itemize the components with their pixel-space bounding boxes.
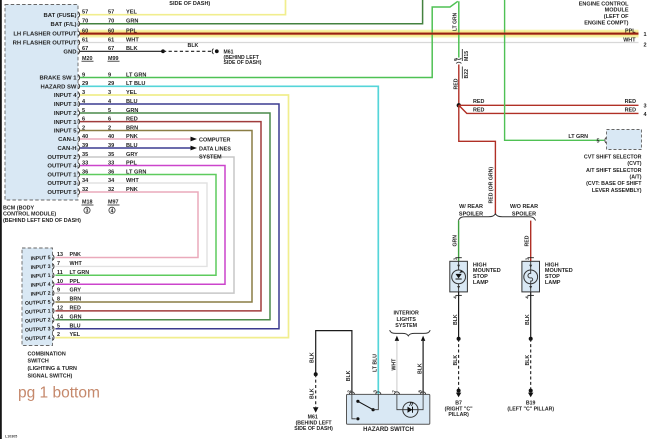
BCM pin symbol OUTPUT 4	[78, 163, 79, 168]
hazard switch internal contacts	[352, 394, 356, 418]
svg-text:A/T SHIFT SELECTOR: A/T SHIFT SELECTOR	[586, 168, 642, 174]
circled connector number 3	[84, 207, 90, 213]
svg-text:SIDE OF DASH): SIDE OF DASH)	[294, 426, 333, 432]
svg-text:LAMP: LAMP	[473, 280, 489, 286]
combination switch pin symbol INPUT 5	[53, 255, 54, 260]
svg-text:(LIGHTING & TURN: (LIGHTING & TURN	[28, 366, 78, 372]
combination switch pin symbol OUTPUT 4	[53, 335, 54, 340]
wire RED below connector	[458, 65, 460, 106]
connector symbol at M61	[212, 49, 213, 54]
hazard switch pin 2	[349, 392, 354, 395]
hazard switch box	[347, 394, 430, 424]
svg-text:W/ REAR: W/ REAR	[459, 204, 483, 210]
svg-text:OUTPUT 5: OUTPUT 5	[47, 190, 77, 196]
svg-text:BLK: BLK	[417, 363, 423, 374]
svg-text:BLK: BLK	[188, 43, 199, 49]
BCM (body control module) connector block	[5, 5, 78, 201]
wire RH FLASHER OUTPUT WHT	[80, 42, 639, 44]
svg-text:BLK: BLK	[310, 352, 316, 363]
svg-text:4: 4	[111, 208, 114, 214]
svg-text:SYSTEM: SYSTEM	[395, 323, 417, 329]
dashed BLK wire to ground	[458, 339, 460, 391]
splice dot	[457, 337, 461, 341]
svg-text:INPUT 3: INPUT 3	[31, 264, 51, 271]
brace under interior lights system	[390, 330, 431, 336]
svg-text:OUTPUT 2: OUTPUT 2	[47, 155, 77, 161]
svg-text:WHT: WHT	[623, 38, 636, 44]
svg-text:BLK: BLK	[525, 355, 531, 366]
svg-text:CAN-L: CAN-L	[58, 137, 77, 143]
svg-text:BLK: BLK	[525, 314, 531, 325]
svg-text:(A/T): (A/T)	[629, 175, 641, 181]
left page border	[0, 0, 2, 439]
splice dot	[529, 337, 533, 341]
svg-text:RED: RED	[525, 235, 531, 246]
BCM pin symbol INPUT 2	[78, 110, 79, 115]
svg-text:LEVER ASSEMBLY): LEVER ASSEMBLY)	[592, 188, 642, 194]
svg-text:3: 3	[86, 208, 89, 214]
svg-text:INPUT 1: INPUT 1	[54, 120, 77, 126]
svg-text:(BEHIND LEFT END OF DASH): (BEHIND LEFT END OF DASH)	[3, 218, 81, 224]
arrow to M61	[313, 407, 319, 412]
lamp internal wire bottom	[530, 284, 532, 292]
combination switch pin symbol OUTPUT 2	[53, 317, 54, 322]
svg-text:ENGINE CONTROL: ENGINE CONTROL	[579, 1, 629, 7]
stop lamp pin 4 tick	[528, 294, 534, 296]
BCM pin symbol OUTPUT 3	[78, 180, 79, 185]
svg-text:CVT SHIFT SELECTOR: CVT SHIFT SELECTOR	[584, 154, 642, 160]
svg-text:1: 1	[644, 32, 647, 38]
svg-text:BRAKE SW 1: BRAKE SW 1	[40, 76, 78, 82]
svg-text:INPUT 4: INPUT 4	[31, 282, 51, 289]
combination switch pin label OUTPUT 2	[25, 317, 51, 324]
svg-text:WHT: WHT	[391, 358, 397, 371]
svg-text:LT GRN: LT GRN	[452, 12, 458, 31]
wire BLK from lamp	[458, 292, 460, 339]
hazard switch indicator circuit	[397, 394, 423, 409]
svg-text:RED: RED	[453, 78, 459, 89]
svg-text:CONTROL MODULE): CONTROL MODULE)	[3, 212, 56, 218]
wire GRN to left stop lamp	[458, 221, 460, 262]
CVT shift selector box	[607, 130, 642, 150]
svg-text:SPOILER: SPOILER	[459, 211, 483, 217]
wire BRN BCM to combination switch	[55, 131, 252, 303]
stop lamp pin 4 tick	[455, 294, 461, 296]
svg-text:RED: RED	[473, 107, 484, 113]
svg-text:RH FLASHER OUTPUT: RH FLASHER OUTPUT	[13, 41, 77, 47]
svg-text:RED: RED	[473, 99, 484, 105]
svg-text:BLK: BLK	[453, 314, 459, 325]
combination switch pin label INPUT 2	[31, 291, 51, 298]
BCM pin symbol CAN-H	[78, 145, 79, 150]
svg-text:SIDE OF DASH): SIDE OF DASH)	[169, 1, 210, 7]
combination switch pin label INPUT 1	[31, 273, 51, 280]
BCM pin symbol BAT (FUSE)	[78, 12, 79, 17]
ground point B19	[529, 389, 533, 393]
BCM pin symbol RH FLASHER OUTPUT	[78, 40, 79, 45]
hazard indicator lamp circle	[403, 402, 418, 417]
arrow to interior lights (BLK)	[421, 336, 425, 341]
wire YEL BCM to combination switch	[55, 95, 288, 338]
svg-text:LH FLASHER OUTPUT: LH FLASHER OUTPUT	[13, 32, 77, 38]
wire RED to right stop lamp	[530, 221, 532, 262]
wire BLK hazard to interior lights	[422, 341, 424, 395]
arrow CAN-H	[191, 146, 198, 151]
splice dot	[314, 372, 318, 376]
wire RED to pin 4	[459, 105, 639, 113]
wire RED to pin 3	[459, 104, 639, 106]
svg-text:LT BLU: LT BLU	[372, 354, 378, 372]
dashed GND wire to M61	[163, 50, 213, 52]
BCM pin symbol OUTPUT 1	[78, 172, 79, 177]
wire BLK from lamp	[530, 292, 532, 339]
svg-text:OUTPUT 3: OUTPUT 3	[47, 181, 77, 187]
BCM pin symbol INPUT 1	[78, 119, 79, 124]
wire LT GRN BCM to combination switch	[55, 175, 216, 276]
svg-text:1: 1	[452, 257, 457, 260]
svg-text:BAT (F/L): BAT (F/L)	[50, 22, 76, 28]
svg-text:OUTPUT 1: OUTPUT 1	[47, 173, 77, 179]
svg-text:pg 1 bottom: pg 1 bottom	[18, 385, 100, 402]
alternative brace w/ and w/o rear spoiler	[458, 214, 535, 221]
combination switch pin label INPUT 5	[31, 255, 51, 262]
svg-text:BCM (BODY: BCM (BODY	[3, 206, 35, 212]
hazard indicator LED symbol	[408, 407, 413, 413]
svg-text:MODULE: MODULE	[605, 8, 629, 14]
wire WHT hazard to interior lights	[396, 341, 398, 395]
BCM pin symbol INPUT 3	[78, 101, 79, 106]
svg-text:W/O REAR: W/O REAR	[510, 204, 538, 210]
wire PPL BCM to combination switch	[55, 166, 225, 285]
svg-text:INPUT 1: INPUT 1	[31, 273, 51, 280]
svg-text:M15: M15	[464, 51, 470, 61]
wire CAN-H BLU to computer data lines	[80, 147, 191, 149]
svg-text:LIGHTS: LIGHTS	[396, 317, 416, 323]
stop lamp pin 1 tick	[528, 257, 534, 259]
svg-text:LT GRN: LT GRN	[568, 134, 588, 140]
svg-text:DATA LINES: DATA LINES	[199, 146, 231, 152]
BCM pin symbol BAT (F/L)	[78, 21, 79, 26]
combination switch pin label INPUT 4	[31, 282, 51, 289]
svg-text:PILLAR): PILLAR)	[448, 412, 469, 418]
high mounted stop lamp box	[450, 261, 468, 292]
wire RED (OR GRN) down to spoiler alternatives	[459, 105, 496, 214]
svg-text:HAZARD SW: HAZARD SW	[41, 85, 77, 91]
wire PNK BCM to combination switch	[55, 192, 198, 258]
svg-text:SIGNAL SWITCH): SIGNAL SWITCH)	[28, 373, 73, 379]
bulb filament symbol	[528, 270, 533, 284]
lamp circle	[524, 270, 538, 284]
svg-text:COMPUTER: COMPUTER	[199, 138, 231, 144]
wire GRY BCM to combination switch	[55, 157, 234, 293]
svg-text:(CVT): (CVT)	[627, 161, 641, 167]
svg-text:OUTPUT 4: OUTPUT 4	[47, 164, 77, 170]
lamp internal wire top	[530, 261, 532, 270]
svg-text:ENGINE COMPT): ENGINE COMPT)	[584, 20, 628, 26]
lamp circle	[452, 270, 466, 284]
svg-text:GRN: GRN	[453, 235, 459, 247]
svg-text:INPUT 2: INPUT 2	[54, 111, 77, 117]
wire BAT(F/L) GRN	[80, 0, 423, 24]
stop lamp pin 1 tick	[455, 257, 461, 259]
combination switch pin symbol INPUT 4	[53, 282, 54, 287]
svg-text:BLK: BLK	[310, 388, 316, 399]
combination switch pin label OUTPUT 3	[25, 326, 51, 333]
svg-text:COMBINATION: COMBINATION	[28, 351, 66, 357]
svg-text:2: 2	[644, 43, 647, 49]
hazard switch pin 7	[394, 392, 399, 395]
lamp internal wire top	[458, 261, 460, 270]
dashed BLK wire to ground	[530, 339, 532, 391]
wire RED BCM to combination switch	[55, 122, 261, 311]
BCM pin symbol GND	[78, 49, 79, 54]
combination switch pin label OUTPUT 1	[25, 308, 51, 315]
svg-text:RED: RED	[625, 107, 636, 113]
hazard switch pin 3	[376, 392, 381, 395]
BCM pin symbol BRAKE SW 1	[78, 75, 79, 80]
svg-text:4: 4	[525, 296, 530, 299]
dashed BLK wire to M61	[315, 374, 317, 407]
combination switch pin label INPUT 3	[31, 264, 51, 271]
wire BLK hazard switch to M61	[316, 331, 352, 395]
svg-text:INPUT 5: INPUT 5	[31, 255, 51, 262]
svg-text:RED (OR GRN): RED (OR GRN)	[488, 167, 494, 204]
svg-text:(CVT: BASE OF SHIFT: (CVT: BASE OF SHIFT	[586, 181, 642, 187]
svg-text:(LEFT OF: (LEFT OF	[604, 14, 629, 20]
svg-text:SWITCH: SWITCH	[28, 359, 49, 365]
svg-text:CAN-H: CAN-H	[58, 146, 77, 152]
wire BRAKE SW 1 LT GRN	[80, 1, 458, 77]
wire BLU BCM to combination switch	[55, 104, 279, 329]
BCM pin symbol OUTPUT 2	[78, 154, 79, 159]
svg-text:9: 9	[453, 58, 459, 61]
BCM pin symbol INPUT 5	[78, 128, 79, 133]
arrow to interior lights (WHT)	[395, 336, 399, 341]
ground point B7	[457, 389, 461, 393]
svg-text:L10305: L10305	[5, 435, 17, 439]
connector M15/E22 pin 9	[456, 58, 461, 59]
BCM pin symbol CAN-L	[78, 136, 79, 141]
wire WHT BCM to combination switch	[55, 183, 207, 266]
combination switch pin label OUTPUT 5	[25, 300, 51, 307]
svg-text:SPOILER: SPOILER	[512, 211, 536, 217]
LED symbol	[456, 274, 462, 279]
combination switch pin symbol INPUT 2	[53, 291, 54, 296]
wire BAT(FUSE) YEL	[80, 0, 286, 15]
svg-text:SYSTEM: SYSTEM	[199, 155, 222, 161]
connector arc at shift selector	[605, 137, 607, 144]
combination switch connector block	[22, 248, 53, 346]
svg-text:INPUT 2: INPUT 2	[31, 291, 51, 298]
svg-text:3: 3	[644, 104, 647, 110]
BCM pin symbol INPUT 4	[78, 92, 79, 97]
wire CAN-L PNK to computer data lines	[80, 138, 191, 140]
combination switch pin symbol OUTPUT 1	[53, 308, 54, 313]
BCM pin symbol LH FLASHER OUTPUT	[78, 31, 79, 36]
svg-text:BLK: BLK	[453, 355, 459, 366]
svg-text:BAT (FUSE): BAT (FUSE)	[44, 13, 77, 19]
svg-text:1: 1	[525, 257, 530, 260]
svg-text:INPUT 4: INPUT 4	[54, 93, 77, 99]
svg-text:4: 4	[452, 296, 457, 299]
high mounted stop lamp box	[522, 261, 540, 292]
combination switch pin symbol INPUT 3	[53, 264, 54, 269]
combination switch pin symbol OUTPUT 5	[53, 299, 54, 304]
lamp internal wire bottom	[458, 284, 460, 292]
combination switch pin symbol OUTPUT 3	[53, 326, 54, 331]
svg-text:BLK: BLK	[346, 370, 352, 381]
wire LT GRN from stop light switch	[458, 1, 460, 57]
svg-text:HAZARD SWITCH: HAZARD SWITCH	[363, 427, 414, 433]
combination switch pin label OUTPUT 4	[25, 335, 51, 342]
svg-text:SIDE OF DASH): SIDE OF DASH)	[224, 60, 262, 66]
wire GRN BCM to combination switch	[55, 113, 270, 320]
junction dot	[457, 103, 461, 107]
svg-text:LAMP: LAMP	[545, 280, 561, 286]
wire LH FLASHER OUTPUT PPL yellow halo	[80, 30, 639, 38]
wire GND BLK	[80, 50, 163, 52]
combination switch pin symbol INPUT 1	[53, 273, 54, 278]
hazard switch blade	[358, 401, 373, 409]
svg-text:INPUT 5: INPUT 5	[54, 129, 77, 135]
hazard switch pin 8	[421, 392, 426, 395]
wire LT GRN to shift selector	[505, 0, 605, 140]
svg-text:B22: B22	[464, 69, 470, 79]
svg-text:INPUT 3: INPUT 3	[54, 102, 77, 108]
wire LH FLASHER OUTPUT PPL red core	[80, 32, 639, 34]
svg-text:GND: GND	[63, 50, 76, 56]
svg-text:RED: RED	[625, 99, 636, 105]
svg-text:5: 5	[597, 138, 600, 144]
svg-text:(LEFT "C" PILLAR): (LEFT "C" PILLAR)	[507, 406, 554, 412]
arrow CAN-L	[191, 137, 198, 142]
svg-text:INTERIOR: INTERIOR	[394, 311, 419, 317]
wire HAZARD SW LT BLU	[80, 86, 378, 394]
circled connector number 4	[109, 207, 115, 213]
splice dot on GND wire	[161, 49, 165, 53]
BCM pin symbol HAZARD SW	[78, 84, 79, 89]
BCM pin symbol OUTPUT 5	[78, 189, 79, 194]
